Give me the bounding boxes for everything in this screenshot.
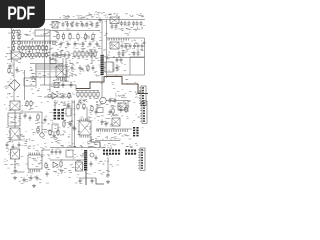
- diode bridge D1: [9, 80, 20, 91]
- value labels: [35, 120, 50, 131]
- capacitor C42: [109, 109, 112, 115]
- ground: [106, 180, 110, 184]
- wire: [107, 57, 145, 59]
- capacitor C73: [64, 52, 67, 58]
- wire B+ trace: [76, 77, 112, 89]
- pin row of IC U12: [80, 119, 89, 121]
- resistor R8: [12, 35, 14, 41]
- IC U6: [56, 66, 67, 77]
- value labels: [62, 120, 80, 135]
- transistor Q2: [90, 153, 94, 157]
- pin row of IC U6: [57, 78, 66, 81]
- wire: [96, 128, 132, 130]
- capacitor C24: [16, 67, 19, 73]
- value labels: [68, 101, 99, 109]
- IC U5: [24, 78, 36, 86]
- value labels: [105, 52, 134, 59]
- capacitor C20: [133, 43, 136, 49]
- IC U3: [50, 59, 56, 64]
- IC U12: [79, 121, 91, 135]
- resistor R49: [83, 103, 85, 110]
- wire: [40, 84, 76, 86]
- pin row of IC U2: [21, 41, 56, 44]
- value labels: [111, 44, 145, 50]
- resistor R63: [57, 129, 59, 136]
- value labels: [19, 177, 42, 184]
- value labels: [8, 136, 45, 147]
- pin column of IC U7: [113, 63, 115, 71]
- capacitor C51: [67, 41, 70, 47]
- op-amp U9: [52, 93, 58, 100]
- value labels: [51, 76, 73, 83]
- resistor R25: [28, 52, 30, 59]
- connector CN5: [133, 127, 139, 136]
- capacitor C76: [99, 17, 102, 23]
- resistor R31: [74, 50, 76, 58]
- value labels: [73, 48, 100, 61]
- connector CN8: [138, 148, 145, 170]
- wire: [107, 74, 145, 76]
- resistor R50: [63, 120, 65, 128]
- IC U10: [8, 113, 20, 126]
- transformer T7: [84, 150, 87, 171]
- capacitor C29: [62, 82, 65, 88]
- capacitor C8: [96, 22, 99, 28]
- resistor R41: [89, 91, 91, 99]
- capacitor C21: [137, 43, 140, 49]
- value labels: [48, 128, 62, 142]
- IC U2: [35, 30, 50, 36]
- transformer T3: [101, 55, 104, 75]
- resistor R26: [32, 52, 34, 59]
- resistor R33: [82, 50, 84, 58]
- value labels: [45, 112, 61, 123]
- value labels: [32, 73, 50, 78]
- node: [48, 94, 51, 97]
- wire: [13, 91, 15, 102]
- capacitor C75: [95, 109, 98, 115]
- capacitor C2: [66, 22, 69, 28]
- IC U15: [66, 150, 73, 157]
- resistor R9: [12, 40, 14, 46]
- wire: [30, 63, 63, 65]
- IC U16: [76, 162, 83, 171]
- resistor R42: [93, 91, 95, 99]
- value labels: [122, 49, 144, 52]
- wire: [106, 20, 108, 79]
- capacitor C7: [91, 22, 94, 28]
- value labels: [126, 28, 130, 29]
- resistor R43: [97, 91, 99, 99]
- capacitor C4: [76, 22, 79, 28]
- pin row of connector CN1: [108, 38, 128, 40]
- resistor R52: [60, 160, 62, 168]
- value labels: [110, 95, 125, 99]
- value labels: [5, 51, 13, 60]
- resistor R15: [21, 45, 23, 52]
- capacitor C74: [68, 52, 71, 58]
- resistor R62: [49, 129, 51, 136]
- IC U19: [52, 124, 58, 132]
- value labels: [7, 28, 21, 51]
- value labels: [56, 47, 98, 58]
- value labels: [65, 62, 74, 71]
- transformer T8: [11, 149, 20, 159]
- capacitor C13: [128, 21, 131, 27]
- resistor R20: [38, 45, 40, 52]
- resistor R46: [30, 100, 32, 107]
- capacitor C66: [120, 107, 123, 113]
- IC U18: [28, 155, 42, 169]
- capacitor C46: [51, 149, 54, 155]
- value labels: [7, 60, 23, 73]
- wire: [54, 100, 56, 109]
- transformer T5: [10, 128, 20, 140]
- value labels: [51, 50, 75, 64]
- pin row of IC U18: [29, 153, 40, 155]
- capacitor C57: [122, 51, 125, 57]
- wire: [65, 58, 67, 82]
- capacitor C55: [96, 41, 99, 47]
- resistor R40: [85, 91, 87, 99]
- value labels: [88, 106, 100, 119]
- wire: [106, 100, 128, 102]
- value labels: [52, 31, 58, 45]
- wire: [107, 157, 109, 172]
- capacitor C6: [86, 22, 89, 28]
- wire: [129, 57, 131, 75]
- SAW filter U1: [52, 22, 58, 29]
- resistor R32: [78, 50, 80, 58]
- capacitor C9: [111, 24, 114, 30]
- capacitor C58: [133, 51, 136, 57]
- capacitor C71: [56, 52, 59, 58]
- ground: [13, 176, 17, 180]
- value labels: [100, 160, 119, 166]
- speaker LS1: [100, 97, 106, 103]
- value labels: [129, 28, 133, 30]
- value labels: [53, 170, 70, 176]
- wire: [96, 178, 104, 184]
- IC U14: [112, 118, 120, 126]
- value labels: [88, 147, 104, 151]
- transformer T2: [110, 42, 119, 49]
- capacitor C72: [60, 52, 63, 58]
- capacitor C28: [120, 57, 123, 63]
- value labels: [41, 32, 50, 35]
- resistor R60: [37, 113, 39, 121]
- capacitor C19: [129, 43, 132, 49]
- wire VCC bus: [45, 19, 145, 21]
- wire: [144, 38, 146, 75]
- resistor R4: [77, 33, 79, 41]
- value labels: [69, 59, 97, 76]
- value labels: [121, 40, 146, 44]
- value labels: [73, 16, 85, 18]
- value labels: [56, 161, 85, 170]
- resistor R66: [91, 105, 93, 112]
- value labels: [6, 79, 13, 93]
- resistor R3: [69, 33, 71, 41]
- value labels: [121, 29, 124, 31]
- resistor R17: [28, 45, 30, 52]
- IC U8: [54, 83, 59, 88]
- capacitor C70: [52, 52, 55, 58]
- resistor R35: [90, 50, 92, 58]
- value labels: [94, 137, 138, 145]
- capacitor C35: [29, 115, 32, 121]
- capacitor C63: [53, 133, 56, 139]
- capacitor C43: [101, 119, 104, 125]
- wire: [130, 56, 145, 58]
- wire: [13, 59, 15, 78]
- value labels: [78, 100, 99, 106]
- value labels: [53, 80, 75, 82]
- value labels: [55, 21, 98, 29]
- value labels: [29, 156, 43, 166]
- capacitor C1: [62, 22, 65, 28]
- resistor R64: [45, 162, 47, 169]
- pin row of IC U18: [29, 170, 40, 173]
- wire: [50, 30, 100, 32]
- value labels: [4, 162, 42, 170]
- wire: [76, 90, 99, 92]
- value labels: [6, 149, 20, 174]
- value labels: [6, 127, 39, 135]
- value labels: [141, 28, 143, 29]
- capacitor C10: [115, 24, 118, 30]
- resistor R12: [18, 35, 20, 41]
- pin row of IC U12: [80, 136, 89, 138]
- capacitor C54: [89, 41, 92, 47]
- resistor R61: [8, 67, 10, 74]
- resistor R14: [18, 46, 20, 52]
- capacitor C61: [116, 65, 119, 71]
- capacitor C3: [71, 22, 74, 28]
- crystal X1: [11, 52, 21, 59]
- IC U13: [97, 108, 103, 113]
- value labels: [113, 89, 132, 98]
- capacitor C64: [23, 177, 26, 183]
- IC U11: [66, 108, 71, 116]
- resistor R7: [12, 29, 14, 35]
- resistor R19: [35, 45, 37, 52]
- connector CN7: [125, 150, 136, 155]
- capacitor C38: [18, 142, 21, 148]
- capacitor C56: [118, 51, 121, 57]
- resistor R1: [57, 33, 59, 41]
- transformer T6: [118, 103, 126, 110]
- value labels: [47, 102, 71, 110]
- resistor R6: [92, 33, 94, 41]
- PDF badge: [0, 0, 45, 28]
- capacitor C34: [24, 113, 27, 119]
- capacitor C44: [105, 121, 108, 127]
- value labels: [68, 137, 100, 146]
- value labels: [65, 21, 100, 27]
- wire: [62, 58, 64, 82]
- net labels: [59, 15, 95, 19]
- value labels: [44, 87, 73, 97]
- wire: [91, 50, 93, 64]
- resistor R47: [37, 126, 39, 134]
- resistor R5: [84, 33, 86, 41]
- wire: [12, 40, 57, 42]
- value labels: [60, 168, 74, 174]
- value labels: [26, 172, 49, 183]
- capacitor C23: [9, 63, 12, 69]
- value labels: [62, 126, 98, 134]
- value labels: [4, 87, 19, 97]
- resistor R37: [87, 64, 89, 72]
- value labels: [90, 15, 108, 17]
- capacitor C14: [132, 21, 135, 27]
- wire: [71, 100, 73, 148]
- value labels: [50, 138, 64, 146]
- capacitor C60: [92, 65, 95, 71]
- value labels: [9, 65, 14, 75]
- capacitor C37: [12, 144, 15, 150]
- value labels: [133, 28, 137, 31]
- value labels: [98, 62, 117, 76]
- value labels: [50, 48, 71, 60]
- value labels: [23, 67, 35, 73]
- capacitor C27: [116, 57, 119, 63]
- resistor R10: [12, 46, 14, 52]
- value labels: [8, 112, 45, 123]
- wire: [49, 36, 51, 92]
- value labels: [64, 113, 99, 121]
- value labels: [101, 115, 123, 125]
- transistor Q1: [40, 133, 44, 137]
- value labels: [78, 98, 98, 101]
- capacitor C59: [137, 51, 140, 57]
- value labels: [114, 25, 145, 35]
- value labels: [97, 100, 145, 110]
- resistor R30: [45, 52, 47, 59]
- wire: [74, 100, 76, 148]
- value labels: [4, 148, 45, 159]
- value labels: [101, 79, 137, 84]
- resistor R48: [77, 103, 79, 110]
- value labels: [100, 171, 109, 177]
- keypad switch matrix S1: [54, 109, 64, 120]
- connector CN2: [139, 86, 146, 106]
- resistor R36: [94, 50, 96, 58]
- wire: [95, 140, 120, 142]
- resistor R23: [21, 52, 23, 59]
- value labels: [56, 33, 103, 47]
- solder dots: [36, 71, 62, 72]
- value labels: [80, 138, 98, 146]
- wire: [50, 159, 84, 161]
- wire: [15, 171, 25, 173]
- value labels: [68, 173, 96, 184]
- value labels: [56, 31, 101, 44]
- capacitor C52: [91, 178, 94, 184]
- connector CN3: [140, 101, 147, 123]
- wire: [14, 159, 16, 168]
- wire: [44, 28, 46, 85]
- capacitor C17: [121, 43, 124, 49]
- value labels: [100, 143, 132, 148]
- capacitor C48: [59, 149, 62, 155]
- wire: [35, 64, 37, 77]
- value labels: [135, 91, 143, 98]
- value labels: [100, 126, 144, 136]
- capacitor C25: [71, 65, 74, 71]
- resistor R44: [68, 92, 70, 99]
- capacitor C5: [81, 22, 84, 28]
- wire: [107, 37, 145, 39]
- capacitor C50: [90, 161, 93, 167]
- capacitor C39: [67, 103, 70, 109]
- wire: [11, 28, 13, 62]
- resistor R22: [45, 45, 47, 52]
- value labels: [137, 28, 141, 30]
- wire: [41, 112, 43, 133]
- capacitor C62: [44, 117, 47, 123]
- wire: [127, 101, 129, 113]
- wire: [14, 110, 16, 128]
- pin row of IC U4: [36, 64, 62, 70]
- wire: [24, 70, 26, 100]
- capacitor C51: [79, 178, 82, 184]
- wire: [20, 111, 42, 113]
- value labels: [62, 146, 76, 151]
- value labels: [7, 131, 36, 145]
- capacitor C16: [140, 21, 143, 27]
- capacitor C26: [79, 65, 82, 71]
- value labels: [44, 137, 71, 147]
- resistor R34: [86, 50, 88, 58]
- capacitor C22: [141, 43, 144, 49]
- wire: [42, 149, 50, 151]
- resistor R11: [18, 29, 20, 35]
- capacitor C36: [6, 142, 9, 148]
- resistor R27: [35, 52, 37, 59]
- capacitor C15: [136, 21, 139, 27]
- resistor R2: [62, 33, 64, 41]
- value labels: [99, 101, 130, 108]
- wire: [30, 76, 70, 78]
- pin row of connector CN4: [97, 130, 128, 132]
- op-amp U17: [53, 162, 58, 168]
- IC U7: [105, 62, 113, 72]
- transformer T1: [110, 17, 119, 24]
- wire: [44, 96, 72, 98]
- capacitor C50: [60, 41, 63, 47]
- value labels: [46, 21, 58, 29]
- resistor R18: [32, 45, 34, 52]
- capacitor C30: [70, 82, 73, 88]
- value labels: [96, 48, 106, 58]
- transformer T4: [10, 101, 20, 110]
- capacitor C45: [107, 172, 110, 178]
- value labels: [98, 161, 112, 171]
- wire: [79, 177, 96, 179]
- capacitor C49: [95, 155, 98, 161]
- resistor R29: [42, 52, 44, 59]
- capacitor C32: [109, 98, 112, 104]
- capacitor C41: [73, 125, 76, 131]
- capacitor C53: [14, 168, 17, 174]
- value labels: [55, 59, 75, 76]
- wire: [50, 147, 100, 149]
- capacitor C52: [74, 41, 77, 47]
- resistor R38: [77, 91, 79, 99]
- value labels: [10, 115, 22, 123]
